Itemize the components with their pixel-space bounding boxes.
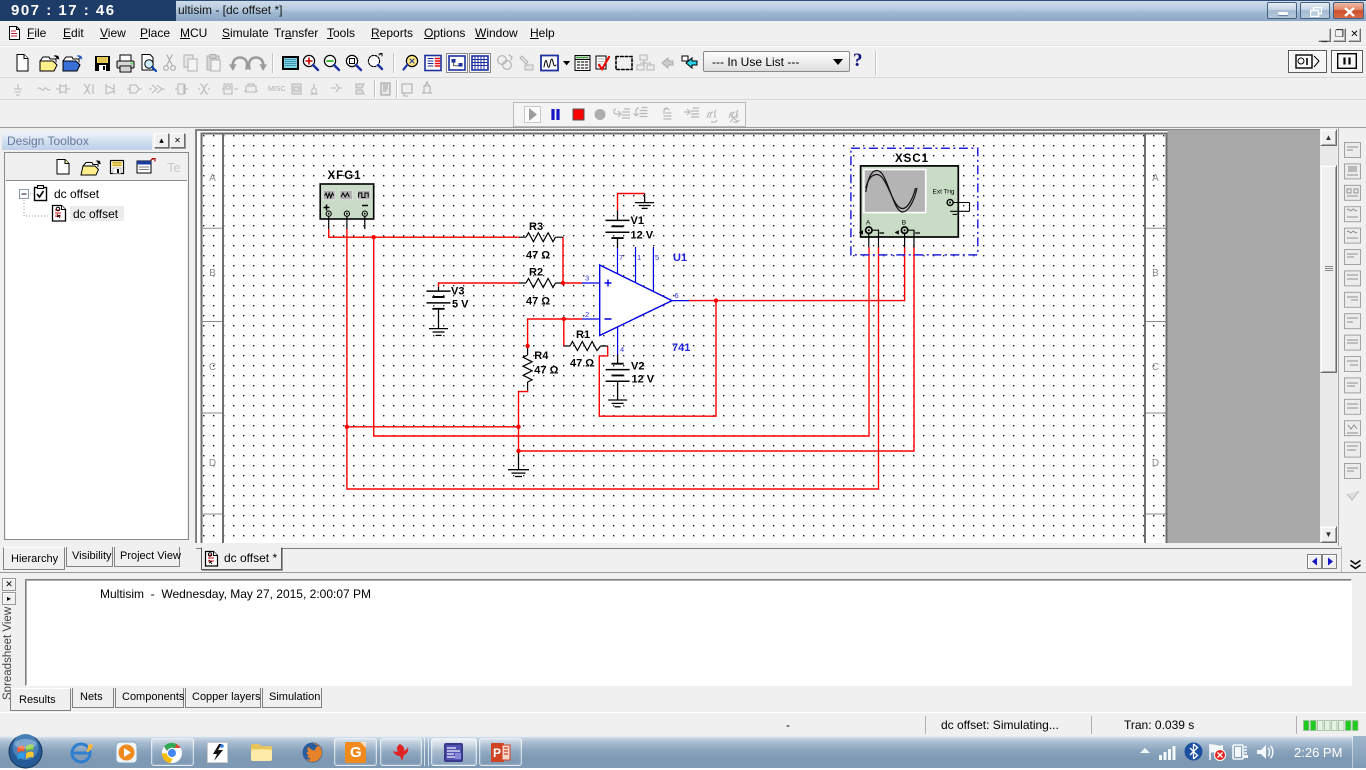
- ground (below V3): [429, 329, 448, 336]
- scope traces: [866, 171, 917, 213]
- taskbar: [0, 736, 1366, 768]
- node XFG1 branch: [372, 235, 376, 239]
- svg-text:C: C: [209, 362, 216, 373]
- G app framed: [334, 738, 377, 766]
- svg-text:47 Ω: 47 Ω: [526, 296, 550, 308]
- svg-text:1: 1: [637, 253, 641, 262]
- svg-text:XSC1: XSC1: [895, 153, 929, 165]
- print: [117, 61, 134, 68]
- powerpoint framed: [479, 738, 522, 766]
- back gray: [662, 58, 673, 68]
- svg-text:XFG1: XFG1: [328, 170, 362, 182]
- clipboard icon: [35, 186, 47, 201]
- svg-text:R1: R1: [576, 329, 590, 341]
- svg-text:12 V: 12 V: [632, 374, 655, 386]
- bottom tabs: [10, 688, 71, 711]
- paste gray: [207, 55, 220, 72]
- svg-text:P: P: [493, 746, 501, 760]
- wire common to ground node: [347, 427, 519, 451]
- sep: [272, 51, 274, 75]
- op-amp U1: [582, 247, 689, 355]
- ground (main node): [508, 451, 529, 477]
- svg-text:C: C: [1152, 362, 1159, 373]
- WMP: [115, 741, 138, 764]
- status bar: [0, 712, 1366, 736]
- sheet frame border: [202, 134, 1167, 544]
- svg-text:47 Ω: 47 Ω: [570, 358, 594, 370]
- svg-text:47 Ω: 47 Ω: [534, 365, 558, 377]
- svg-text:V1: V1: [631, 215, 644, 227]
- multisim app framed (active): [431, 738, 477, 766]
- XSC1 body: [861, 166, 959, 237]
- chrome framed: [151, 738, 194, 766]
- wire R3 right to noninverting node: [562, 237, 564, 283]
- window separators: [424, 738, 425, 766]
- cut gray: [164, 55, 176, 70]
- wire R1 right feedback loop: [599, 301, 716, 417]
- svg-text:A: A: [209, 173, 216, 184]
- new: [17, 55, 28, 72]
- title bar: [0, 0, 1366, 21]
- frame letters: [209, 173, 1159, 469]
- gray tool: [520, 56, 533, 70]
- wire V1 top to ground: [618, 194, 645, 211]
- postprocess blue: [425, 56, 441, 71]
- svg-text:U1: U1: [673, 252, 687, 264]
- wire XFG1 common down to A minus: [347, 229, 879, 489]
- svg-text:dc offset: dc offset: [54, 187, 100, 201]
- junction dots: [345, 235, 719, 453]
- svg-text:B: B: [209, 268, 216, 279]
- svg-text:Ext Trig: Ext Trig: [933, 189, 955, 196]
- wire R2 right to op-amp plus input: [563, 282, 582, 284]
- node inverting: [562, 317, 566, 321]
- find: [406, 55, 417, 66]
- wire inverting input to R4 top: [528, 319, 582, 346]
- preview: [142, 55, 153, 71]
- tab scroll buttons: [1307, 554, 1322, 569]
- resistor R1: [564, 342, 608, 351]
- svg-text:R3: R3: [529, 221, 543, 233]
- ERC: [596, 56, 606, 69]
- wire branch to scope A plus: [374, 237, 869, 436]
- svg-text:A: A: [1152, 173, 1159, 184]
- undo gray: [233, 58, 247, 69]
- node output: [714, 298, 718, 302]
- svg-text:R2: R2: [529, 267, 543, 279]
- frame zone ticks: [202, 228, 1166, 514]
- graph icon: [541, 56, 558, 71]
- firefox: [301, 741, 324, 764]
- svg-text:5 V: 5 V: [452, 299, 469, 311]
- zoom out: [324, 55, 335, 66]
- node R4 top: [525, 344, 529, 348]
- ground (below V2): [608, 400, 627, 407]
- lightning app: [207, 742, 228, 763]
- svg-text:2: 2: [585, 310, 589, 319]
- in use list combo: [703, 51, 850, 72]
- left panel tabs: [3, 547, 65, 570]
- folder: [250, 742, 273, 763]
- spreadsheet: [575, 56, 590, 71]
- battery V2 12V: [606, 355, 630, 401]
- resistor R3: [519, 233, 563, 242]
- scope terminal stems: [869, 230, 914, 247]
- sheet background: [196, 130, 1321, 543]
- wire inverting node down to R1 left: [563, 319, 565, 346]
- svg-text:B: B: [1152, 268, 1159, 279]
- zoom in: [303, 55, 314, 66]
- battery V3 5V: [427, 287, 451, 329]
- zoom fit: [368, 55, 379, 66]
- svg-text:D: D: [1152, 458, 1159, 469]
- XFG1 body: [320, 184, 374, 229]
- ground (V1 top): [635, 194, 654, 209]
- svg-text:6: 6: [675, 291, 679, 300]
- svg-text:7: 7: [619, 253, 623, 262]
- wire op-amp output to scope B plus: [689, 247, 905, 301]
- svg-text:5: 5: [655, 253, 659, 262]
- svg-text:47 Ω: 47 Ω: [526, 250, 550, 262]
- svg-text:3: 3: [585, 274, 589, 283]
- svg-text:A: A: [866, 220, 871, 227]
- node noninverting: [561, 281, 565, 285]
- open yellow: [40, 57, 56, 62]
- start orb: [7, 734, 44, 770]
- node ground: [516, 449, 520, 453]
- save: [95, 56, 110, 71]
- IE: [69, 741, 93, 765]
- right toggle buttons: [1288, 50, 1327, 73]
- open blue: [63, 57, 79, 62]
- svg-text:MISC: MISC: [268, 86, 286, 93]
- sheet tab: [196, 548, 1341, 549]
- svg-text:D: D: [209, 458, 216, 469]
- svg-text:B: B: [902, 220, 906, 227]
- project toggle framed: [447, 54, 468, 73]
- svg-text:4: 4: [620, 345, 624, 354]
- copy gray: [184, 55, 197, 71]
- redo gray: [249, 58, 263, 69]
- pin numbers 7 1 5 3 2 4 6: [585, 253, 679, 354]
- zoom area: [346, 55, 357, 66]
- grid framed: [470, 54, 491, 73]
- wire ground node to scope B minus: [519, 247, 915, 451]
- node common left: [345, 425, 349, 429]
- svg-text:12 V: 12 V: [631, 230, 654, 242]
- svg-text:V2: V2: [631, 361, 644, 373]
- resistor R4: [523, 346, 532, 390]
- viewport border: [197, 131, 1322, 544]
- export cyan: [682, 56, 688, 61]
- svg-text:R4: R4: [534, 350, 549, 362]
- wire V3 to R2: [439, 283, 520, 287]
- page icon: [53, 206, 66, 222]
- fullscreen: [282, 56, 299, 70]
- tray: [1138, 746, 1152, 756]
- svg-text:dc offset: dc offset: [73, 207, 119, 221]
- resistor R2: [519, 279, 563, 288]
- menu bar: [0, 21, 1366, 46]
- svg-text:741: 741: [672, 342, 690, 354]
- red app framed: [380, 738, 422, 766]
- node ground top: [516, 425, 520, 429]
- svg-text:Te: Te: [167, 160, 181, 175]
- wire XFG1 plus to R3: [329, 229, 519, 237]
- sep: [393, 51, 395, 75]
- selection rectangle: [851, 148, 978, 255]
- toolbars: [0, 46, 1366, 78]
- battery V1 12V: [606, 210, 630, 248]
- gray out-of-sheet area: [1168, 130, 1322, 543]
- svg-text:V3: V3: [451, 286, 464, 298]
- sheet tab strip: [0, 546, 1366, 572]
- spheres gray: [498, 55, 512, 69]
- hierarchy gray: [637, 55, 654, 70]
- dashed select: [616, 57, 632, 70]
- wire R4 bottom to ground node: [519, 390, 528, 427]
- spreadsheet view: [0, 572, 1366, 712]
